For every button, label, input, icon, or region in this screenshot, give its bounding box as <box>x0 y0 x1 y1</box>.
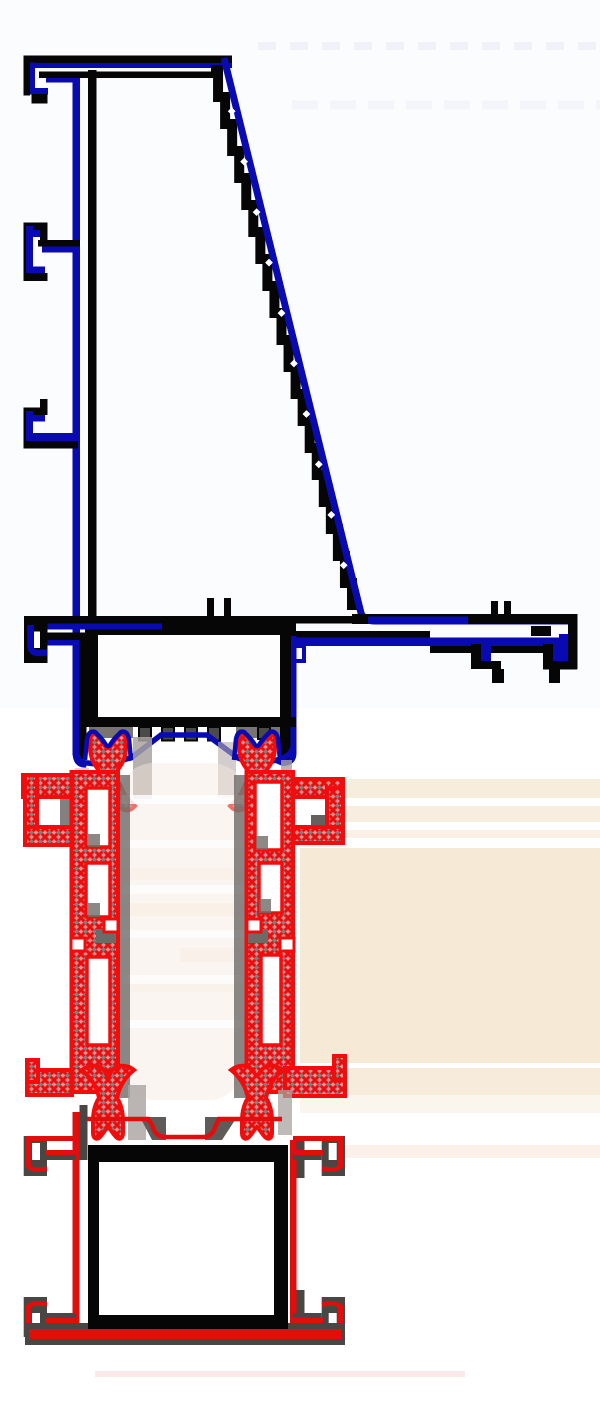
right end cap blue <box>559 634 568 661</box>
hanging clip 1 black <box>471 644 501 669</box>
bottom profile right wall red <box>290 1140 297 1334</box>
right arm top hatched <box>293 779 343 797</box>
capsule white streak 4 <box>122 930 244 938</box>
top profile bottom bar left blue <box>27 624 85 630</box>
left foot hook white slot <box>34 632 40 649</box>
right column slot2 gray shade <box>259 899 271 913</box>
red X clip left <box>81 733 135 811</box>
watermark beige band 2 <box>344 806 600 822</box>
watermark beige fade bottom <box>300 1095 600 1113</box>
top profile flange right black top <box>296 631 430 638</box>
bottom profile right wall gray top <box>297 1140 305 1178</box>
blue gasket wave <box>76 735 294 764</box>
watermark streak between columns 4 <box>130 980 247 992</box>
left column slot2 gray shade <box>88 903 100 917</box>
red X clip right <box>230 733 284 811</box>
hook B top arm black <box>24 223 48 231</box>
top profile top bar black <box>24 56 232 64</box>
watermark beige band lower <box>300 1068 600 1095</box>
gray slope left of valley <box>140 1117 166 1140</box>
watermark streak between columns 2 <box>120 903 247 916</box>
middle box left wall black <box>80 636 99 727</box>
diagonal white checker chips <box>228 107 236 115</box>
left wall below box black <box>80 727 87 759</box>
capsule white streak 5 <box>122 975 244 984</box>
left column hatched body <box>72 772 119 1092</box>
gray shadow left of right X <box>218 742 236 798</box>
left column slot 3 <box>87 957 110 1045</box>
left column slot 2 <box>86 863 110 917</box>
watermark beige left ragged edge <box>318 867 348 1060</box>
top profile inner diagonal black stair <box>211 70 352 610</box>
bottom profile bottom bar gray <box>25 1323 345 1345</box>
black square inner white <box>99 1162 274 1315</box>
top profile flange right blue <box>296 638 568 647</box>
capsule white streak 6 <box>122 1020 244 1028</box>
top profile blue left wall <box>73 75 81 755</box>
watermark streak between columns 3 <box>180 948 247 962</box>
hanging clip 1 stem <box>492 669 504 683</box>
left column connector notch <box>104 919 118 932</box>
bottom profile hook bottom-left <box>24 1297 76 1337</box>
hook B left vertical blue <box>26 226 33 276</box>
top profile blue left wall bottom curve <box>76 752 86 764</box>
hanging clip 1 blue <box>481 644 491 661</box>
hook B bottom arm blue <box>26 267 45 274</box>
hanging clip 2 blue <box>553 644 562 661</box>
watermark beige band 3 <box>344 830 600 838</box>
left column slot1 gray shade <box>88 834 100 847</box>
hook C bottom arm black <box>24 441 78 449</box>
watermark beige main block <box>300 848 600 1063</box>
right column connector notch 2 <box>280 938 294 951</box>
capsule white streak 3 <box>122 885 244 894</box>
hook A blue bottom arm <box>30 88 48 95</box>
hook C left vertical blue <box>26 411 33 444</box>
gray block under left X prongs <box>89 727 133 738</box>
top profile bottom bar right blue stripe <box>368 617 468 625</box>
red X foot right <box>231 1066 283 1139</box>
pale capsule between columns <box>120 763 246 1100</box>
right column slot 1 <box>255 782 282 850</box>
hook B stem black <box>40 230 48 246</box>
hook C top arm blue <box>26 415 45 422</box>
bottom profile left wall gray <box>80 1105 88 1160</box>
black square outer <box>88 1145 288 1329</box>
left bottom arm hatched <box>27 1070 72 1095</box>
bottom profile right wall gray bottom <box>297 1290 305 1334</box>
top profile bottom bar left black <box>24 616 354 624</box>
top profile inner black wall <box>88 70 97 618</box>
tooth 4 under box <box>208 727 220 741</box>
gray shadow right of right X <box>281 760 292 800</box>
right end cap black <box>568 614 578 669</box>
watermark faint pink line bottom <box>95 1371 465 1377</box>
left bottom arm curl <box>27 1060 38 1082</box>
right wall lower blue <box>276 727 294 763</box>
top profile flange left black <box>41 633 296 642</box>
red gasket wave <box>84 1119 282 1137</box>
hook C top arm black <box>24 408 48 416</box>
top profile top bar blue line <box>30 63 232 68</box>
right column slot 2 <box>259 863 282 913</box>
right arm bottom hatched <box>293 827 343 843</box>
right end cap bottom black <box>543 661 577 670</box>
bar blue stripe over box top <box>85 624 162 630</box>
right column slot 3 <box>261 955 281 1045</box>
gray shadow left of left X <box>75 768 89 800</box>
hook B bottom arm black <box>24 273 48 281</box>
gray strip inner left column <box>117 775 130 1098</box>
bottom profile bottom bar red <box>29 1329 341 1339</box>
bottom profile hook bottom-right <box>293 1297 345 1337</box>
right column connector notch <box>247 919 261 932</box>
red X foot left <box>82 1066 134 1139</box>
hook A black foot <box>32 94 48 104</box>
gray strip right arm slot <box>311 815 328 843</box>
hook B top arm blue <box>26 230 44 237</box>
gray strip inner right column <box>234 775 247 1098</box>
top profile bottom bar right black <box>352 614 577 624</box>
watermark faint artifact row 2 <box>292 101 600 110</box>
notch ticks left pair <box>207 598 231 616</box>
middle box interior white <box>98 635 280 717</box>
top profile flange connector web <box>531 626 551 636</box>
hanging clip 2 stem <box>549 669 560 683</box>
watermark streak between columns 1 <box>120 868 247 880</box>
left arm bottom hatched <box>25 827 72 845</box>
gray shadow behind right foot <box>278 1090 292 1135</box>
right column connector gray block <box>248 929 268 943</box>
hook B left vertical black <box>24 223 27 282</box>
hook C left vertical black <box>24 408 27 449</box>
hook C tab black <box>40 399 48 408</box>
blue wrap over left X prongs <box>85 732 131 760</box>
watermark beige band 1 <box>344 779 600 798</box>
middle box right wall blue <box>291 636 297 727</box>
top profile outer diagonal blue <box>224 58 570 621</box>
bottom profile hook top-left <box>24 1136 76 1176</box>
page tint top half <box>0 0 600 708</box>
right column slot1 gray shade <box>256 836 268 850</box>
right bottom arm curl <box>334 1056 345 1080</box>
right wall lower black <box>280 727 291 762</box>
bottom profile hook top-right <box>293 1136 345 1176</box>
bottom profile left wall red <box>73 1112 80 1330</box>
top profile inner ledge black <box>39 72 213 79</box>
tooth end right <box>258 727 270 739</box>
hook A blue wall <box>30 63 35 89</box>
gray slope right of valley <box>205 1117 237 1140</box>
right arm vertical hatched <box>327 788 343 843</box>
middle box bottom black <box>90 717 296 727</box>
left arm top hatched <box>23 775 72 797</box>
tooth 3 under box <box>185 727 197 741</box>
tooth 1 under box <box>139 727 151 741</box>
right wall bump blue <box>296 646 304 661</box>
top profile flange right black underside <box>430 646 577 653</box>
left column connector gray block <box>96 929 116 943</box>
hanging clip 2 black <box>543 644 553 661</box>
hook B middle arm black <box>38 240 80 247</box>
hook A inner blue ledge <box>46 77 76 83</box>
blue wrap over right X prongs <box>234 732 280 760</box>
watermark faint artifact row top <box>258 42 600 50</box>
left column connector notch 2 <box>71 938 85 951</box>
right bottom arm hatched <box>285 1068 345 1096</box>
hook B middle arm blue <box>42 247 78 253</box>
top profile flange left blue <box>47 640 90 646</box>
middle box top black <box>85 616 296 636</box>
watermark faint pink band <box>345 1145 600 1158</box>
tooth 2 under box <box>162 727 174 741</box>
left arm vertical hatched <box>25 775 37 845</box>
hook A outer black <box>24 56 31 96</box>
left foot hook blue <box>31 625 48 653</box>
left foot hook outer black <box>24 616 48 663</box>
capsule white streak 1 <box>122 795 244 804</box>
middle box right wall black <box>280 636 291 727</box>
left column slot 1 <box>86 788 110 847</box>
gray block under right X prongs <box>236 727 280 738</box>
notch ticks right pair <box>491 601 511 616</box>
hook C bottom arm blue <box>28 433 75 441</box>
gray shadow behind left foot <box>128 1085 146 1140</box>
gray shadow right of left X <box>133 737 152 799</box>
gray strip left arm slot <box>60 797 72 827</box>
right column hatched body <box>247 772 294 1092</box>
capsule white streak 2 <box>122 840 244 848</box>
